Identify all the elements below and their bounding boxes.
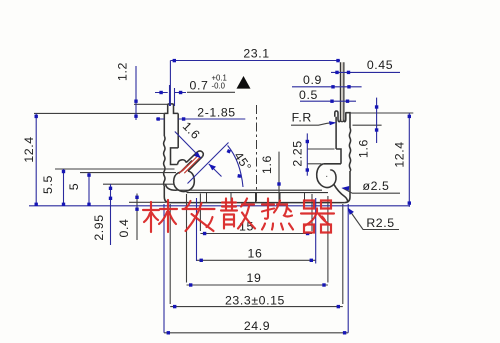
- svg-text:24.9: 24.9: [244, 319, 270, 333]
- dim 0.45 line: [331, 71, 400, 73]
- dim 5 line: [88, 173, 90, 206]
- ticks 5: [87, 173, 90, 176]
- left wall inner face: [177, 113, 179, 147]
- ext 15 verticals: [200, 194, 312, 232]
- centerline: [256, 105, 258, 203]
- fin slot left wall with lip: [335, 111, 341, 122]
- ext 19 verticals: [187, 194, 328, 283]
- phi2.5 underline and leader: [343, 188, 401, 193]
- dim 12.4 L line: [35, 113, 37, 205]
- char fa: [183, 201, 215, 231]
- right boss center mark: [325, 175, 328, 177]
- char re: [262, 199, 293, 230]
- dim 1.6 R line: [376, 98, 378, 143]
- svg-text:19: 19: [247, 271, 262, 285]
- left wall inner step: [171, 148, 179, 165]
- ticks 1.2: [134, 100, 137, 103]
- left wall outer serration: [164, 136, 165, 186]
- ext 0.4 upper: [129, 201, 166, 203]
- ext 23.3 verticals: [170, 204, 343, 304]
- ticks 15: [203, 232, 206, 235]
- right wall outer edge upper + top surface: [346, 113, 350, 128]
- right wall inner step: [336, 149, 341, 164]
- left wall outer edge lower + bottom-left corner R2.5: [164, 186, 170, 203]
- left boss slot lower edge: [188, 157, 202, 171]
- svg-text:1.6: 1.6: [356, 139, 370, 158]
- svg-text:R2.5: R2.5: [366, 216, 394, 230]
- F.R underline and leader: [291, 123, 334, 126]
- left wall top ledge and tab: [164, 104, 178, 114]
- dim line 19: [187, 284, 328, 286]
- dim 45 arc: [228, 146, 243, 188]
- char qi: [301, 201, 334, 233]
- center 1.6 dim vertical dark: [278, 152, 280, 203]
- ticks 0.4: [135, 196, 138, 199]
- ext 2.25 top: [307, 148, 334, 150]
- datum triangle: [237, 76, 251, 89]
- ticks 2.95: [109, 187, 112, 190]
- dim 2-1.85 arrows and underline: [156, 118, 245, 120]
- ext left wall top (12.4 L): [34, 112, 164, 114]
- dim 0.9 line: [292, 86, 362, 88]
- ticks 12.4 right: [408, 115, 411, 118]
- PROFILE: [164, 62, 351, 202]
- left boss ear lip: [178, 160, 187, 165]
- bottom-right corner R2.5 + right outer edge lower: [344, 171, 350, 203]
- ext tab top left (1.2): [134, 103, 168, 105]
- right boss to floor fillet: [334, 184, 348, 202]
- R2.5 underline and leader: [348, 209, 399, 230]
- dim line 16: [197, 259, 316, 261]
- dim line 15: [200, 233, 312, 235]
- svg-text:12.4: 12.4: [22, 136, 36, 162]
- svg-text:2.95: 2.95: [92, 214, 106, 240]
- 0.4 dim vertical dark: [136, 194, 138, 241]
- ticks 2.25: [306, 140, 309, 143]
- svg-text:2.25: 2.25: [291, 140, 305, 166]
- bottom outer face: [170, 202, 345, 204]
- ticks 0.7: [159, 91, 162, 94]
- svg-text:16: 16: [248, 246, 263, 260]
- svg-text:23.1: 23.1: [243, 47, 269, 61]
- svg-text:1.6: 1.6: [260, 155, 274, 174]
- 45 arc ticks: [227, 149, 232, 154]
- svg-text:5: 5: [67, 183, 81, 190]
- slot hatch red: [179, 155, 201, 174]
- WATERMARK 林发散热器: [143, 199, 334, 233]
- ticks 16: [200, 259, 203, 262]
- ticks 19: [189, 283, 192, 286]
- svg-text:0.45: 0.45: [367, 58, 393, 72]
- ticks 0.9: [331, 85, 334, 88]
- left cavity fillet: [166, 184, 177, 190]
- dim 2.25 line: [306, 133, 308, 175]
- phi2.5 arrow: [341, 186, 349, 191]
- svg-text:23.3±0.15: 23.3±0.15: [225, 293, 285, 307]
- char san: [221, 199, 255, 229]
- svg-text:0.5: 0.5: [299, 88, 318, 102]
- ticks 23.1: [173, 59, 176, 62]
- blue dimension lines: [29, 61, 410, 333]
- svg-text:1.6: 1.6: [180, 119, 203, 142]
- ext 24.9 verticals blue: [164, 204, 348, 333]
- svg-text:45°: 45°: [231, 149, 254, 174]
- ext 16 verticals blue: [197, 198, 316, 264]
- bottom long extension line: [29, 205, 410, 207]
- ticks 5.5: [62, 170, 65, 173]
- ticks 1.6 right: [375, 105, 378, 108]
- interior floor line: [177, 189, 323, 191]
- left boss slot inner end: [181, 161, 193, 173]
- ticks 0.45: [335, 71, 338, 74]
- ext right wall top (12.4 R / 1.6 R): [350, 112, 413, 114]
- dim line 23.3: [170, 306, 343, 308]
- dim 23.1 line and extensions: [170, 61, 340, 107]
- dim 5.5 line: [63, 169, 65, 206]
- dim 45 ray: [188, 143, 229, 184]
- ext 2.95 top: [103, 183, 174, 185]
- ticks 2-1.85: [157, 117, 160, 120]
- svg-text:ø2.5: ø2.5: [362, 179, 389, 193]
- svg-text:2-1.85: 2-1.85: [197, 105, 235, 119]
- svg-text:12.4: 12.4: [392, 141, 406, 167]
- dim 0.7 arrows and extensions: [155, 85, 186, 106]
- ticks 24.9: [167, 331, 170, 334]
- svg-text:-0.0: -0.0: [212, 82, 226, 91]
- ext 5: [80, 172, 176, 174]
- ticks 0.5: [330, 100, 333, 103]
- right wall inner face: [335, 117, 337, 149]
- svg-text:0.7: 0.7: [190, 79, 209, 93]
- ext 5.5: [55, 168, 175, 170]
- dim line 24.9: [164, 332, 348, 334]
- left boss slot mouth: [197, 151, 203, 157]
- extension lines dark: [34, 92, 413, 332]
- dim slot 1.6 leader a: [175, 132, 201, 159]
- dim 12.4 R line: [408, 113, 410, 207]
- right wall outer serration: [349, 128, 350, 171]
- dim 2.95 line: [110, 184, 112, 245]
- left wall outer edge upper: [163, 113, 165, 136]
- svg-text:0.9: 0.9: [303, 73, 322, 87]
- svg-text:F.R: F.R: [292, 111, 312, 125]
- fin slot right wall: [344, 112, 346, 122]
- right boss circle with slot opening: [317, 164, 336, 188]
- ext 2.25 bottom: [307, 163, 321, 165]
- thin top fin: [340, 62, 344, 122]
- interior floor rib line: [187, 192, 329, 194]
- F.R arrow: [329, 121, 337, 125]
- ext right ledge (1.6 R bottom): [353, 124, 382, 126]
- DIMENSION TEXT: [22, 47, 406, 333]
- 0.7 text underline: [187, 91, 235, 93]
- svg-text:0.4: 0.4: [117, 219, 131, 238]
- dim 0.5 line: [300, 100, 356, 102]
- blue square ticks: [35, 59, 412, 335]
- tick 1.6 base: [277, 182, 280, 185]
- char lin: [143, 200, 177, 232]
- slot 1.6 arrows: [194, 152, 201, 158]
- ticks 12.4 left: [35, 115, 38, 118]
- R2.5 arrow: [348, 208, 354, 215]
- left boss slot upper edge: [186, 152, 197, 163]
- dim slot 1.6 leader b: [209, 164, 222, 177]
- svg-text:5.5: 5.5: [41, 175, 55, 194]
- base ribs: [207, 193, 305, 203]
- right boss shelf: [323, 163, 341, 165]
- ticks 23.3: [173, 305, 176, 308]
- left boss outer blob: [174, 171, 195, 192]
- dim 1.2 line: [135, 66, 137, 120]
- blue arrowheads: [194, 121, 354, 215]
- svg-text:1.2: 1.2: [116, 62, 130, 81]
